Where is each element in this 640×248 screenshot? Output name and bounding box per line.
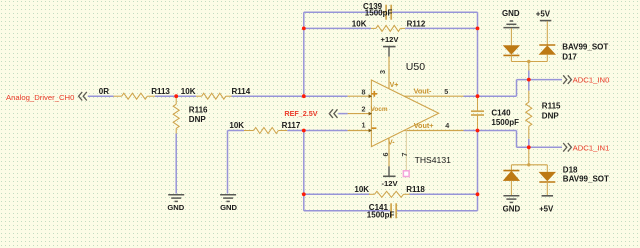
- port chevrons REF_2.5V: [329, 109, 333, 118]
- junction Vout- rail / pin5: [476, 94, 480, 98]
- wire REF_2.5V to pin 2: [338, 113, 347, 115]
- svg-text:R117: R117: [282, 121, 301, 130]
- pin 5 (Vout-): [404, 95, 463, 97]
- wire ADC1_IN1 row: [517, 146, 563, 148]
- svg-text:2: 2: [362, 104, 366, 113]
- no-connect marker on pin 7: [403, 171, 409, 177]
- diode D18b (to +5V): [546, 165, 548, 172]
- lead D17 to net: [528, 62, 530, 71]
- svg-text:10K: 10K: [181, 87, 196, 96]
- diode D17b (to +5V): [539, 44, 555, 46]
- wire C139 right: [392, 11, 477, 13]
- op-amp U50 body: [371, 80, 438, 147]
- svg-text:R116: R116: [189, 105, 208, 114]
- capacitor C141: [390, 203, 392, 218]
- svg-text:Vout-: Vout-: [414, 87, 432, 96]
- wire input to R113: [88, 95, 114, 97]
- pin 3 (V+ supply): [388, 57, 390, 89]
- wire R112 right: [405, 27, 477, 29]
- junction -IN rail / pin1: [302, 129, 306, 133]
- pin 8: [348, 95, 372, 97]
- junction D18 common: [527, 163, 530, 166]
- wire GND riser to R117: [227, 131, 229, 194]
- lead +5V to D17 cathode: [546, 21, 548, 45]
- svg-text:R118: R118: [406, 185, 425, 194]
- svg-text:Vout+: Vout+: [414, 121, 434, 130]
- svg-text:5: 5: [444, 87, 448, 96]
- wire -IN rail vertical: [303, 131, 305, 211]
- wire R114 to +IN rail: [232, 95, 304, 97]
- wire R118 right: [410, 193, 478, 195]
- wire ADC1_IN0 row: [517, 79, 563, 81]
- wire R116 to GND: [175, 134, 177, 194]
- wire R115 to clamp node 1: [528, 139, 530, 147]
- port chevrons Analog_Driver_CH0: [79, 92, 83, 101]
- resistor R115: [528, 91, 530, 103]
- wire node to R114: [176, 95, 196, 97]
- resistor R114: [196, 95, 202, 97]
- svg-text:ADC1_IN0: ADC1_IN0: [573, 75, 610, 84]
- wire R113 to node: [155, 95, 176, 97]
- svg-text:V+: V+: [390, 82, 399, 89]
- svg-text:R115: R115: [542, 101, 561, 110]
- power +12V: [383, 46, 396, 48]
- svg-text:3: 3: [378, 70, 387, 74]
- svg-text:DNP: DNP: [542, 112, 560, 121]
- resistor R116: [175, 96, 177, 104]
- svg-text:Vocm: Vocm: [371, 106, 388, 113]
- wire +IN rail to pin 8: [304, 95, 348, 97]
- pin 4 (Vout+): [404, 130, 463, 132]
- ground above D17: [510, 20, 513, 22]
- resistor R118: [369, 193, 375, 195]
- svg-text:1500pF: 1500pF: [367, 211, 395, 220]
- junction +IN rail / R112: [302, 27, 306, 31]
- svg-text:D18: D18: [563, 165, 578, 174]
- capacitor C139: [381, 11, 386, 13]
- minus mark at pin 1: [372, 127, 377, 129]
- ground under R117: [220, 194, 236, 196]
- pin 2: [348, 113, 372, 115]
- power +5V below D18: [542, 195, 554, 197]
- svg-text:+5V: +5V: [539, 204, 554, 213]
- junction -IN rail / R118: [302, 192, 306, 196]
- wire tap riser ADC1_IN1: [516, 131, 518, 148]
- svg-text:10K: 10K: [352, 19, 367, 28]
- svg-text:1: 1: [362, 120, 366, 129]
- wire R112 left: [304, 27, 371, 29]
- svg-text:REF_2.5V: REF_2.5V: [284, 109, 317, 118]
- wire C141 right: [397, 210, 478, 212]
- svg-text:C140: C140: [491, 108, 511, 117]
- wire Vout+ rail vertical: [477, 131, 479, 211]
- svg-text:-12V: -12V: [381, 179, 398, 188]
- svg-text:6: 6: [381, 153, 390, 157]
- wire D18 common: [511, 164, 547, 166]
- wire R118 left: [304, 193, 369, 195]
- svg-text:U50: U50: [406, 61, 425, 73]
- pin 6 (V- supply): [388, 138, 390, 167]
- wire +IN rail vertical: [303, 12, 305, 96]
- svg-text:GND: GND: [220, 203, 237, 212]
- svg-text:BAV99_SOT: BAV99_SOT: [562, 43, 608, 52]
- junction clamp node 0: [527, 78, 531, 82]
- junction Vout+ rail / pin4: [476, 129, 480, 133]
- wire clamp node 0 to R115: [528, 80, 530, 91]
- pin 1: [348, 130, 372, 132]
- diode D17a (to GND): [503, 46, 519, 55]
- port chevrons ADC1_IN1: [563, 143, 567, 152]
- svg-text:10K: 10K: [229, 121, 244, 130]
- wire tap riser ADC1_IN0: [516, 80, 518, 97]
- wire D17 to clamp node 0: [528, 71, 530, 80]
- ground below D18: [503, 195, 519, 197]
- wire D17 common: [511, 61, 547, 63]
- svg-text:1500pF: 1500pF: [365, 9, 393, 18]
- resistor R117: [244, 130, 254, 132]
- svg-text:8: 8: [362, 88, 366, 97]
- svg-text:R114: R114: [232, 87, 251, 96]
- svg-text:D17: D17: [562, 53, 577, 62]
- port chevrons ADC1_IN0: [563, 75, 567, 84]
- junction R113/R114/R116: [174, 94, 178, 98]
- svg-text:Analog_Driver_CH0: Analog_Driver_CH0: [6, 93, 74, 102]
- svg-text:+12V: +12V: [381, 35, 400, 44]
- svg-text:ADC1_IN1: ADC1_IN1: [573, 144, 610, 153]
- junction D17 common: [527, 60, 530, 63]
- resistor R112: [371, 27, 376, 29]
- lead net to D18 common: [528, 147, 530, 165]
- junction Vout- rail / R112: [476, 27, 480, 31]
- svg-text:THS4131: THS4131: [415, 155, 452, 165]
- svg-text:GND: GND: [502, 9, 520, 18]
- wire C141 left: [304, 210, 390, 212]
- svg-text:BAV99_SOT: BAV99_SOT: [563, 174, 609, 183]
- wire C139 left: [304, 11, 385, 13]
- capacitor C140: [477, 96, 479, 111]
- svg-text:7: 7: [400, 153, 409, 157]
- wire R117 left: [228, 130, 245, 132]
- svg-text:+5V: +5V: [536, 9, 551, 18]
- junction Vout+ rail / R118: [476, 192, 480, 196]
- wire R117 to -IN rail: [287, 130, 304, 132]
- svg-text:0R: 0R: [99, 87, 109, 96]
- svg-text:GND: GND: [167, 203, 184, 212]
- ground under R116: [168, 194, 184, 196]
- pin 7 (NC): [405, 129, 407, 171]
- resistor R113: [114, 95, 122, 97]
- wire pin 5 to tap: [464, 95, 517, 97]
- svg-text:R112: R112: [407, 19, 426, 28]
- wire -IN rail to pin 1: [304, 130, 348, 132]
- lead GND to D17 anode: [510, 28, 512, 45]
- junction clamp node 1: [527, 145, 531, 149]
- plus mark at pin 8: [371, 91, 377, 97]
- svg-text:4: 4: [445, 121, 449, 130]
- svg-text:DNP: DNP: [189, 115, 207, 124]
- power +5V above D17: [540, 20, 552, 22]
- svg-text:10K: 10K: [354, 185, 369, 194]
- junction +IN rail / pin8: [302, 94, 306, 98]
- svg-text:R113: R113: [151, 87, 170, 96]
- svg-text:1500pF: 1500pF: [491, 118, 519, 127]
- diode D18a (to GND): [510, 165, 512, 171]
- svg-text:GND: GND: [503, 204, 521, 213]
- wire Vout- rail vertical: [477, 12, 479, 96]
- wire pin 4 to tap: [464, 130, 517, 132]
- power -12V: [383, 175, 396, 177]
